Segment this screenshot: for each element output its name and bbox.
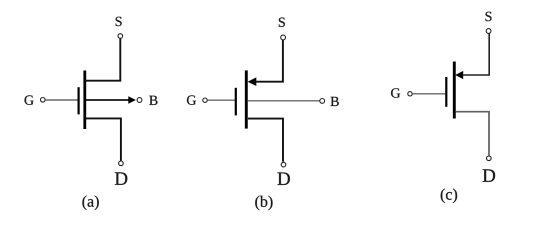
label S (c) xyxy=(486,12,492,21)
wire: source lead (b) xyxy=(256,40,283,82)
wire: drain lead (a) xyxy=(85,118,121,160)
terminal circle B (a) xyxy=(137,98,142,103)
label S (a) xyxy=(116,17,122,26)
arrowhead bulk (a) xyxy=(128,96,136,104)
arrowhead source (b) xyxy=(248,77,257,86)
terminal circle S (b) xyxy=(281,35,286,40)
channel bar (c) xyxy=(453,62,456,119)
wire: drain lead (b) xyxy=(248,119,283,162)
caption (b) xyxy=(255,196,272,211)
wire: gate lead (b) xyxy=(207,99,235,101)
wire: source lead (c) xyxy=(463,33,489,75)
label B (a) xyxy=(149,96,157,105)
terminal circle D (b) xyxy=(281,162,286,167)
terminal circle D (a) xyxy=(119,161,124,166)
arrowhead source (c) xyxy=(455,71,463,79)
wire: gate lead (a) xyxy=(45,99,77,101)
caption (a) xyxy=(82,196,98,211)
terminal circle D (c) xyxy=(487,156,492,161)
channel bar (b) xyxy=(245,70,248,128)
gate bar (a) xyxy=(77,87,79,114)
label S (b) xyxy=(279,18,285,27)
gate bar (c) xyxy=(445,77,447,107)
label B (b) xyxy=(331,97,339,106)
label D (b) xyxy=(277,172,289,184)
terminal circle S (c) xyxy=(486,29,491,34)
wire: gate lead (c) xyxy=(412,93,445,95)
label G (c) xyxy=(391,88,400,97)
terminal circle G (a) xyxy=(41,98,46,103)
terminal circle B (b) xyxy=(320,99,325,104)
label G (b) xyxy=(187,95,196,104)
gate bar (b) xyxy=(235,88,237,116)
label G (a) xyxy=(25,95,34,104)
label D (a) xyxy=(115,172,127,184)
label D (c) xyxy=(483,169,495,181)
terminal circle S (a) xyxy=(118,34,123,39)
wire: bulk lead (a) xyxy=(86,99,130,101)
caption (c) xyxy=(441,189,457,204)
wire: bulk lead (b) xyxy=(248,100,320,102)
terminal circle G (b) xyxy=(203,98,207,102)
wire: source lead (a) xyxy=(85,38,120,80)
channel bar (a) xyxy=(83,71,86,130)
terminal circle G (c) xyxy=(408,92,412,96)
wire: drain lead (c) xyxy=(456,112,489,156)
